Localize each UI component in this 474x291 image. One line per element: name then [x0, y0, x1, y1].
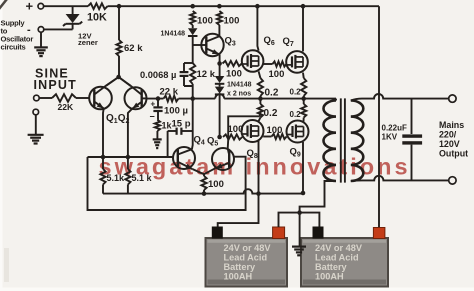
transformer primary winding	[324, 101, 337, 182]
battery B2 body	[301, 238, 388, 287]
wire 0.2 to Q8 drain	[259, 118, 261, 122]
wire top positive supply rail	[44, 5, 379, 7]
wire midpoint to battery2 negative	[300, 213, 320, 227]
resistor 0.2 Q6 source	[258, 78, 263, 96]
svg-text:100AH: 100AH	[224, 272, 253, 282]
capacitor 0.0068uF	[184, 62, 193, 64]
svg-text:100: 100	[226, 69, 242, 80]
resistor 1k	[155, 120, 160, 131]
svg-text:0.0068 µ: 0.0068 µ	[140, 70, 176, 80]
wire source bus y193.6	[103, 189, 303, 193]
svg-text:circuits: circuits	[1, 43, 26, 52]
wire Q6 to 100 Q7	[263, 63, 272, 65]
wire Q3 emitter down	[219, 54, 221, 63]
capacitor 100uF electrolytic	[157, 99, 159, 107]
svg-text:zener: zener	[78, 38, 98, 47]
wire Q1 collector	[106, 77, 119, 86]
node Q8 source junction	[256, 191, 261, 196]
wire 0.22uF top	[411, 99, 413, 134]
ground 1k	[153, 138, 162, 140]
node rail junction 100 ohm Q3 chain	[190, 4, 195, 9]
transistor Q3	[201, 34, 223, 56]
mosfet Q9	[287, 121, 309, 143]
mosfet Q7	[286, 51, 308, 73]
svg-text:10K: 10K	[87, 12, 107, 24]
node mains output bottom terminal	[449, 177, 456, 184]
wire secondary bottom lead	[351, 176, 449, 181]
node 100uF junction	[156, 96, 161, 101]
wire lower terminal to ground	[35, 115, 37, 135]
transistor Q2	[125, 87, 147, 109]
diode 1N4148 first	[188, 28, 198, 35]
resistor 100 Q3 collector	[217, 11, 222, 25]
svg-text:22K: 22K	[58, 102, 75, 112]
svg-text:100: 100	[269, 69, 285, 80]
svg-text:Mains: Mains	[439, 120, 464, 130]
wire 0.22uF bottom	[411, 145, 413, 181]
wire Q7 source	[302, 73, 305, 78]
battery B1 body	[206, 238, 288, 287]
scan mark top-left corner	[0, 0, 7, 9]
wire Q8 source down	[258, 141, 260, 194]
node Q1 emitter junction	[101, 155, 106, 160]
svg-text:INPUT: INPUT	[34, 78, 78, 92]
node sine input terminal	[34, 95, 40, 101]
svg-text:100: 100	[208, 179, 224, 190]
wire Q2 base to feedback node	[142, 97, 147, 99]
svg-text:+: +	[26, 0, 34, 14]
wire main feedback node	[147, 94, 336, 98]
svg-text:220/: 220/	[439, 130, 457, 140]
battery B2 positive terminal	[373, 228, 385, 239]
resistor R 10K on top rail	[88, 3, 108, 9]
wire 15p to base rail	[167, 131, 169, 157]
resistor 0.2 Q8 drain	[258, 104, 263, 118]
svg-text:0.2: 0.2	[264, 108, 278, 119]
battery B2 negative terminal	[313, 227, 324, 239]
node lower gate drive junction	[217, 135, 222, 140]
node Q9 source junction	[301, 191, 306, 196]
wire minus terminal to ground	[40, 32, 42, 47]
svg-text:1KV: 1KV	[382, 133, 398, 142]
svg-text:−: −	[150, 112, 155, 122]
mosfet Q8	[242, 120, 264, 142]
svg-text:Output: Output	[439, 149, 468, 159]
wire to diode	[192, 25, 194, 28]
wire 22K to Q1 base	[76, 97, 89, 99]
svg-text:+: +	[151, 100, 156, 109]
node sine input lower terminal	[33, 109, 39, 115]
node rail junction Q7	[301, 4, 306, 9]
resistor 100 gate Q7	[273, 61, 287, 66]
svg-text:100 µ: 100 µ	[164, 106, 188, 117]
wire Q7 drain	[302, 6, 304, 51]
node junction top rail to 62k	[117, 4, 122, 9]
wire Q2 collector	[119, 77, 131, 86]
wire diodes through hop to lower gate node	[219, 95, 221, 137]
node rail junction Q3 resistor	[217, 4, 222, 9]
resistor 62k	[116, 40, 121, 56]
svg-text:Lead Acid: Lead Acid	[315, 253, 359, 263]
svg-text:0.22uF: 0.22uF	[382, 124, 407, 133]
svg-text:100: 100	[197, 16, 213, 27]
svg-text:62 k: 62 k	[124, 43, 143, 54]
svg-text:100AH: 100AH	[315, 272, 344, 282]
node main wire 12k junction	[190, 96, 195, 101]
resistor 100 gate Q9	[272, 134, 287, 139]
wire 1k to ground	[156, 131, 158, 139]
transformer core	[341, 98, 345, 182]
svg-text:0.2: 0.2	[290, 88, 302, 97]
wire Q6 source	[259, 71, 261, 78]
wire 0.2 to mid node left	[259, 96, 261, 99]
wire diode to Q3 base node	[192, 37, 194, 63]
node 100 emitter junction	[202, 191, 207, 196]
svg-text:5.1 k: 5.1 k	[132, 173, 153, 183]
wire battery positive rail down right side	[378, 6, 380, 227]
resistor 5.1k right	[125, 169, 130, 185]
svg-text:22 k: 22 k	[160, 87, 179, 98]
svg-text:1N4148: 1N4148	[161, 31, 186, 38]
ground battery midpoint	[292, 246, 306, 248]
wire zener branch	[72, 6, 74, 14]
zener diode 12V	[66, 14, 80, 23]
wire Q2 emitter down	[128, 109, 132, 157]
node mains output top terminal	[449, 95, 456, 102]
diode 1N4148 bias upper	[215, 76, 225, 83]
wire Q3 base	[193, 44, 207, 46]
transformer secondary winding	[351, 101, 364, 182]
wire Q8 to 100 Q9	[263, 136, 271, 138]
wire zener to minus terminal	[44, 28, 73, 30]
svg-text:0.2: 0.2	[290, 110, 302, 119]
svg-text:100: 100	[224, 16, 240, 27]
wire Q5 emitter to 100	[204, 168, 215, 174]
ground supply	[34, 46, 48, 48]
resistor 12k	[190, 63, 195, 84]
svg-text:Battery: Battery	[315, 262, 348, 272]
wire 62k branch upper	[118, 6, 120, 40]
svg-text:x 2 nos: x 2 nos	[227, 91, 251, 98]
node Q3 emitter junction	[217, 61, 222, 66]
svg-text:Battery: Battery	[224, 262, 257, 272]
wire Q6 drain	[257, 6, 258, 50]
capacitor 0.22uF 1KV	[402, 134, 422, 137]
diode 1N4148 bias lower	[219, 84, 221, 86]
transistor Q4	[173, 147, 195, 169]
resistor 100 gate Q6	[223, 61, 242, 66]
wire Q5 collector riser	[228, 116, 260, 148]
wire base loop	[88, 157, 246, 210]
wire Q4 emitter to 100	[193, 169, 204, 174]
svg-text:1N4148: 1N4148	[227, 82, 252, 89]
wire 0.2 to Q9 drain	[303, 118, 305, 122]
svg-text:100: 100	[267, 125, 283, 136]
resistor 100 emitters	[203, 174, 205, 176]
mosfet Q6	[242, 50, 264, 72]
wire primary top lead	[335, 99, 337, 101]
wire Q9 source down	[302, 142, 304, 193]
capacitor 15p	[168, 130, 176, 132]
svg-text:24V or 48V: 24V or 48V	[315, 243, 363, 253]
wire secondary top lead	[351, 94, 449, 101]
node battery midpoint junction	[297, 210, 302, 215]
resistor 100 first	[190, 11, 195, 25]
resistor 100 gate Q8	[223, 134, 242, 139]
wire midpoint to battery1 positive	[279, 213, 300, 227]
ground sine input	[28, 134, 44, 136]
svg-text:Lead Acid: Lead Acid	[224, 253, 268, 263]
wire input to 22K	[39, 97, 52, 99]
transistor Q1	[89, 87, 112, 110]
battery B1 negative terminal	[212, 227, 223, 239]
wire Q1 emitter down	[102, 109, 105, 158]
wire 0.2 to mid node right	[303, 96, 305, 99]
wire 62k to Q1 Q2 collectors	[106, 56, 131, 86]
wire battery1 negative tap	[218, 194, 259, 227]
resistor 22K input	[52, 94, 76, 102]
wire base rail y157	[88, 156, 174, 158]
svg-text:15 p: 15 p	[172, 119, 191, 130]
resistor 0.2 Q9 drain	[301, 104, 306, 118]
resistor 5.1k left	[100, 169, 105, 185]
wire Q3 collector	[218, 25, 220, 36]
svg-text:12 k: 12 k	[197, 69, 216, 80]
svg-text:120V: 120V	[439, 139, 460, 149]
svg-text:24V or 48V: 24V or 48V	[224, 243, 272, 253]
wire midpoint to ground	[299, 213, 301, 247]
wire Q3 emitter to diodes	[219, 64, 221, 77]
wire Q8 drain node	[259, 112, 262, 116]
wire primary bottom lead	[300, 181, 336, 213]
transistor Q5	[212, 148, 234, 170]
svg-text:0.2: 0.2	[265, 88, 279, 99]
resistor 22k feedback	[164, 96, 179, 102]
node Q2 emitter junction	[126, 155, 131, 160]
resistor 0.2 Q7 source	[301, 78, 306, 96]
svg-text:5.1k: 5.1k	[107, 173, 126, 183]
wire Q4 collector riser	[191, 99, 194, 150]
node rail junction Q6	[255, 4, 260, 9]
battery B1 positive terminal	[273, 227, 285, 239]
